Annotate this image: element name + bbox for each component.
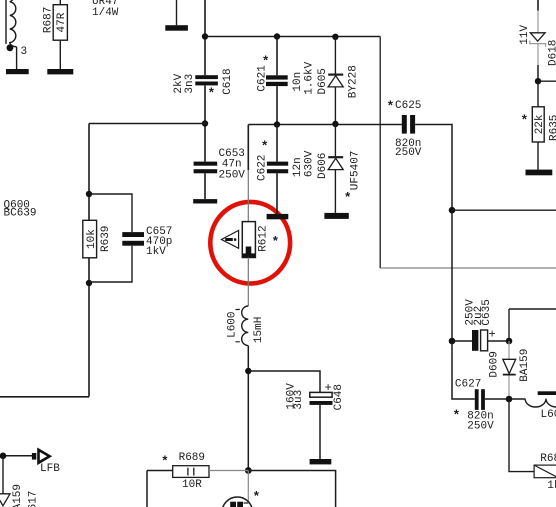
svg-text:D609: D609 xyxy=(488,351,500,377)
value 3n3 xyxy=(184,74,196,94)
diode D617 (clipped) xyxy=(0,494,10,506)
star C618 xyxy=(208,86,216,101)
svg-text:L600: L600 xyxy=(227,311,239,337)
label C657 xyxy=(146,226,172,238)
svg-text:10R: 10R xyxy=(182,479,202,491)
wire D618 anode lead xyxy=(537,44,539,81)
svg-text:3: 3 xyxy=(21,46,28,58)
svg-text:D606: D606 xyxy=(317,153,329,179)
wire y=309 to right edge xyxy=(509,309,556,341)
wire y=210 to right edge xyxy=(452,209,556,211)
transistor circle (clipped) xyxy=(222,497,253,507)
value 2kV xyxy=(173,73,185,93)
label C648 xyxy=(333,384,345,410)
wire node down to D617 xyxy=(2,456,4,494)
LFB connector arrow xyxy=(32,450,50,463)
value 3u3 xyxy=(293,390,305,410)
wire junction down to R66x xyxy=(509,399,534,472)
label L600 xyxy=(227,311,239,337)
wire C657 bottom to x=89 xyxy=(89,246,132,282)
star R635 xyxy=(521,113,529,128)
resistor R612 body (fusible) xyxy=(242,222,255,258)
wire junction to C657 xyxy=(89,194,132,232)
value 250V xyxy=(395,147,422,159)
plus sign C648 xyxy=(325,381,332,395)
wire y=81 to right edge xyxy=(538,80,556,82)
label R612 xyxy=(258,225,270,251)
svg-text:12n: 12n xyxy=(292,157,304,177)
svg-text:LFB: LFB xyxy=(40,463,60,475)
svg-text:10k: 10k xyxy=(86,229,98,249)
svg-text:C622: C622 xyxy=(256,155,268,181)
wire R612 top lead xyxy=(247,125,249,222)
warning triangle xyxy=(221,230,238,248)
svg-text:C627: C627 xyxy=(455,379,481,391)
capacitor C625 plates xyxy=(402,115,415,134)
wire top edge to R687 xyxy=(59,0,61,5)
wire junction to C648 xyxy=(248,371,320,392)
wire C627 right to junction xyxy=(485,398,509,400)
label D609 xyxy=(488,351,500,377)
svg-text:+: + xyxy=(489,328,496,342)
value UF5407 xyxy=(349,151,361,191)
svg-text:47R: 47R xyxy=(56,12,68,32)
wire C622 top lead xyxy=(276,125,278,162)
capacitor C618 plates xyxy=(195,75,218,85)
svg-text:C625: C625 xyxy=(395,100,421,112)
resistor R635 body xyxy=(532,107,544,142)
value 2u2 xyxy=(473,306,485,326)
wire D606 to ground xyxy=(334,170,336,213)
svg-text:C635: C635 xyxy=(481,299,493,325)
label Q600 BC639 xyxy=(4,199,37,219)
svg-text:R639: R639 xyxy=(100,226,112,252)
wire L600 to junctions xyxy=(247,346,249,471)
svg-text:*: * xyxy=(387,99,395,114)
value 1k (clipped) xyxy=(547,480,556,492)
resistor R687 body xyxy=(53,5,67,41)
value BA159 (clipped) xyxy=(12,484,24,507)
svg-text:250V: 250V xyxy=(467,421,494,433)
wire net A corner down x=380 xyxy=(379,37,381,269)
diode D606 xyxy=(328,157,343,169)
wire winding to ground xyxy=(16,47,18,69)
svg-text:*: * xyxy=(344,191,352,206)
svg-text:250V: 250V xyxy=(219,169,246,181)
label C627 xyxy=(455,379,481,391)
junction at (3,455.8) xyxy=(0,453,6,460)
wire C621 bottom lead xyxy=(276,86,278,124)
value 820n xyxy=(467,410,493,422)
ground under C622 xyxy=(267,214,289,219)
value 1.6kV xyxy=(303,61,315,94)
ground top-center xyxy=(165,25,188,31)
junction at (277,36.5) xyxy=(274,33,280,39)
svg-text:BA159: BA159 xyxy=(519,349,531,382)
svg-text:*: * xyxy=(253,490,261,505)
value 10n xyxy=(292,72,304,92)
star C627 xyxy=(453,408,461,423)
svg-text:R689: R689 xyxy=(179,452,205,464)
label D606 xyxy=(317,153,329,179)
label R687 xyxy=(43,7,55,33)
value 250V xyxy=(467,421,494,433)
wire net B2 y=124.5 xyxy=(248,124,401,126)
resistor R639 body xyxy=(83,220,97,257)
label L606 (clipped) xyxy=(541,409,556,421)
wire C621 top lead xyxy=(276,37,278,76)
ground under R687 xyxy=(47,69,73,74)
diode D609 xyxy=(503,341,516,399)
value 11V xyxy=(519,24,531,44)
svg-text:R635: R635 xyxy=(548,115,556,141)
wire x=452 down to C627 row xyxy=(452,341,475,399)
junction at (248.3,371) xyxy=(245,368,251,374)
resistor R66x body (clipped) xyxy=(534,465,556,478)
star C622 xyxy=(261,139,269,154)
wire top edge to ground stub xyxy=(176,0,178,25)
value 47R xyxy=(56,12,68,32)
wire D618 to R635 xyxy=(537,81,539,107)
svg-text:BA159: BA159 xyxy=(12,484,24,507)
transformer winding T1 (pin 3) core line xyxy=(5,0,7,44)
wire C622 to ground xyxy=(276,173,278,214)
svg-text:L60: L60 xyxy=(541,409,556,421)
value 12n xyxy=(292,157,304,177)
svg-text:R687: R687 xyxy=(43,7,55,33)
value 1kV xyxy=(146,246,166,258)
inductor L606 arcs xyxy=(509,399,556,407)
wire R635 to ground xyxy=(537,142,539,170)
junction at (335,124) xyxy=(332,121,338,127)
svg-text:11V: 11V xyxy=(519,24,531,44)
ground under R635 xyxy=(526,170,553,176)
capacitor C627 plates xyxy=(475,389,485,410)
diode D605 xyxy=(328,75,343,87)
svg-text:1.6kV: 1.6kV xyxy=(303,61,315,94)
svg-text:BC639: BC639 xyxy=(4,208,37,220)
wire junction down to transistor xyxy=(247,471,249,504)
svg-text:*: * xyxy=(161,454,169,469)
junction at (509,341) xyxy=(506,338,513,345)
svg-text:*: * xyxy=(453,408,461,423)
value 10R xyxy=(182,479,202,491)
junction at (335,36.8) xyxy=(332,34,338,40)
junction at (509,399) xyxy=(506,396,513,403)
capacitor C657 plates xyxy=(122,232,144,246)
wire net B1 y=123.5 xyxy=(89,123,208,125)
svg-text:*: * xyxy=(521,113,529,128)
star C625 xyxy=(387,99,395,114)
svg-text:630V: 630V xyxy=(303,150,315,177)
label C625 xyxy=(395,100,421,112)
value 820n xyxy=(395,138,421,150)
wire junction right and down x=335.6 xyxy=(248,471,335,507)
svg-text:*: * xyxy=(208,86,216,101)
svg-text:2kV: 2kV xyxy=(173,73,185,93)
ground under winding xyxy=(6,69,29,74)
svg-text:*: * xyxy=(262,54,270,69)
pin number 3 xyxy=(21,46,28,58)
wire D606 cathode lead xyxy=(334,124,336,156)
svg-text:+: + xyxy=(325,381,332,395)
wire C625 right to x=452 down xyxy=(415,125,452,342)
wire C653 to ground xyxy=(204,173,206,199)
capacitor C622 plates xyxy=(267,162,288,174)
label D618 xyxy=(547,40,556,66)
junction at (277,124.5) xyxy=(274,121,280,127)
value 0R47 (clipped at top) xyxy=(92,0,118,8)
svg-text:D617: D617 xyxy=(28,491,40,507)
inductor L606 core bar xyxy=(538,391,556,395)
resistor R689 body (fusible) xyxy=(173,466,209,478)
value 22k xyxy=(534,114,546,134)
wire C648 to ground xyxy=(319,405,321,459)
label C621 xyxy=(256,65,268,92)
junction at (89,283) xyxy=(86,280,92,286)
capacitor C621 plates xyxy=(266,75,288,86)
zener diode D618 xyxy=(530,33,546,47)
value BY228 xyxy=(348,65,360,98)
inductor L600 xyxy=(236,306,249,346)
label R635 xyxy=(548,115,556,141)
label LFB xyxy=(40,463,60,475)
label C635 xyxy=(481,299,493,325)
svg-text:R68: R68 xyxy=(540,453,556,465)
value 1/4W xyxy=(92,7,119,19)
junction at (205,123.5) xyxy=(202,120,208,126)
capacitor C635 (electrolytic) xyxy=(452,330,509,351)
wire top edge to D618 xyxy=(537,0,539,33)
svg-text:C618: C618 xyxy=(222,68,234,94)
wire R687 to ground xyxy=(59,40,61,69)
label C653 xyxy=(219,148,245,160)
star transistor xyxy=(253,490,261,505)
value 630V xyxy=(303,150,315,177)
value 160V xyxy=(285,383,297,410)
svg-text:*: * xyxy=(272,235,280,250)
value 47n xyxy=(222,158,242,170)
value 15mH xyxy=(253,317,265,343)
transformer winding T1 arcs xyxy=(10,0,17,47)
wire D605 anode lead xyxy=(334,87,336,124)
svg-text:D618: D618 xyxy=(547,40,556,66)
plus sign C635 xyxy=(489,328,496,342)
wire D605 cathode lead xyxy=(334,37,336,74)
svg-text:250V: 250V xyxy=(395,147,422,159)
junction at (89,194) xyxy=(86,191,92,197)
svg-text:1kV: 1kV xyxy=(146,246,166,258)
value 470p xyxy=(146,236,172,248)
wire R689 right to junction xyxy=(209,470,248,472)
svg-text:C648: C648 xyxy=(333,384,345,410)
svg-text:3u3: 3u3 xyxy=(293,390,305,410)
ground under C648 xyxy=(310,459,332,464)
wire left corner down xyxy=(147,471,173,507)
svg-text:3n3: 3n3 xyxy=(184,74,196,94)
wire top edge down to C618 xyxy=(204,0,206,75)
red highlight circle around R612 xyxy=(210,202,290,284)
value 250V xyxy=(465,299,477,326)
svg-text:10n: 10n xyxy=(292,72,304,92)
star R612 xyxy=(272,235,280,250)
svg-text:1/4W: 1/4W xyxy=(92,7,119,19)
junction at (452,341) xyxy=(449,338,456,345)
wire R612 bottom lead xyxy=(247,258,249,307)
winding phase dot xyxy=(6,44,13,51)
svg-text:*: * xyxy=(261,139,269,154)
capacitor C653 plates xyxy=(194,162,218,174)
ground under D606 xyxy=(324,213,348,219)
label R639 xyxy=(100,226,112,252)
wire net A y=36.5 xyxy=(205,36,380,38)
svg-text:22k: 22k xyxy=(534,114,546,134)
label D617 (clipped) xyxy=(28,491,40,507)
svg-text:1k: 1k xyxy=(547,480,556,492)
value BA159 xyxy=(519,349,531,382)
svg-text:UF5407: UF5407 xyxy=(349,151,361,191)
label C618 xyxy=(222,68,234,94)
wire x=89 vertical branch xyxy=(0,124,89,397)
wire C618 to C653 xyxy=(204,85,206,161)
ground under C653 xyxy=(193,199,217,203)
junction at (205,36.5) xyxy=(202,33,208,39)
svg-text:R612: R612 xyxy=(258,225,270,251)
svg-text:BY228: BY228 xyxy=(348,65,360,98)
junction at (538,81.2) xyxy=(535,78,541,84)
star UF5407 xyxy=(344,191,352,206)
label D605 xyxy=(317,68,329,94)
svg-text:15mH: 15mH xyxy=(253,317,265,343)
value 250V xyxy=(219,169,246,181)
label R689 xyxy=(179,452,205,464)
wire y=268 to right edge xyxy=(380,267,556,269)
star C621 xyxy=(262,54,270,69)
junction at (248.3,470.5) xyxy=(245,467,252,474)
capacitor C648 (electrolytic) xyxy=(310,392,333,405)
label R66x (clipped) xyxy=(540,453,556,465)
wire left edge to LFB node xyxy=(0,455,32,457)
svg-text:D605: D605 xyxy=(317,68,329,94)
junction at (452,210.2) xyxy=(449,207,456,214)
star R689 xyxy=(161,454,169,469)
value 10k xyxy=(86,229,98,249)
label C622 xyxy=(256,155,268,181)
